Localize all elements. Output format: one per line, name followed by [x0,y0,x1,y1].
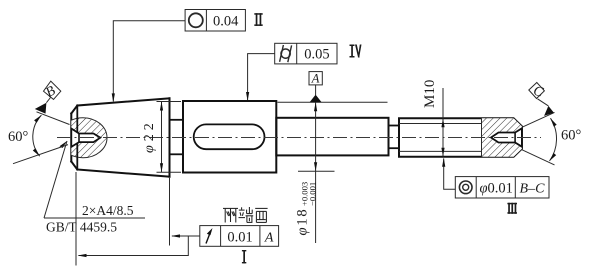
phi18 dimension [298,170,335,172]
numeral III [507,203,517,214]
svg-text:0.04: 0.04 [213,13,239,29]
60 degree left: angle lines [37,112,70,125]
phi22 block section [183,101,276,173]
两端面 text (drawn) [223,207,268,223]
datum C triangle [544,106,554,116]
runout frame I [200,226,279,247]
svg-text:60°: 60° [8,129,29,145]
M10 threaded section outline [399,118,522,156]
tolerance frame II (circularity 0.04) [185,10,245,32]
tolerance frame II leader [113,21,185,102]
local section (hatched) at right end [482,118,522,156]
shaft taper section (left) [71,98,169,176]
phi22 dimension [157,102,182,173]
centerline redrawn over voids [57,137,541,139]
datum C box [529,83,545,99]
centerline (axis) [57,137,541,139]
phi18 tolerance text [294,182,317,236]
phi18 section [276,118,388,156]
svg-text:60°: 60° [561,128,582,144]
svg-text:A: A [311,71,320,85]
datum A symbol [309,71,322,102]
center hole callout 2xA4/8.5 GB/T 4459.5 [44,141,67,218]
svg-text:0.05: 0.05 [304,47,329,63]
tolerance frame III (concentricity) [455,177,549,198]
thread root lines [399,124,482,152]
svg-text:0.01: 0.01 [227,229,252,245]
svg-text:−0.001: −0.001 [308,182,318,206]
neck between taper and phi22 block [170,120,184,155]
60 degree right: arc [550,118,557,161]
neck between phi18 and M10 [389,126,400,149]
datum C leader [538,99,549,106]
两 [223,207,238,209]
svg-text:φ22: φ22 [142,119,157,153]
tolerance frame IV (cylindricity 0.05) [275,43,337,64]
60 degree right: angle lines [522,112,555,127]
numeral IV [350,45,362,58]
datum B leader [46,98,50,103]
M10 dimension [442,88,444,157]
local section dome (hatched) on taper [59,118,107,158]
tolerance frame III leader [444,159,456,190]
runout frame I leaders and extension lines [75,172,77,266]
datum B box [44,81,61,99]
端 [241,207,243,209]
svg-text:A: A [264,230,274,245]
numeral I [242,250,246,263]
datum B triangle [35,103,47,114]
面 [255,207,267,209]
center hole (right) void [491,128,522,146]
svg-text:φ0.01: φ0.01 [480,181,513,197]
svg-text:GB/T 4459.5: GB/T 4459.5 [46,220,117,235]
svg-text:φ18: φ18 [294,208,310,236]
60 degree left: arc [33,115,42,156]
numeral II [254,13,262,26]
tolerance frame IV leader [248,54,275,100]
center hole (left) void [71,129,100,147]
keyway slot [194,124,265,149]
datum A extension line [278,101,388,103]
svg-text:M10: M10 [422,80,438,108]
pilot/countersink junction edge (left) [78,134,80,143]
svg-text:B–C: B–C [520,181,546,196]
pilot/countersink junction edge (right) [514,133,516,143]
svg-text:2×A4/8.5: 2×A4/8.5 [82,203,134,218]
runout symbol [206,231,211,244]
taper small-end chamfer edge [76,106,78,170]
